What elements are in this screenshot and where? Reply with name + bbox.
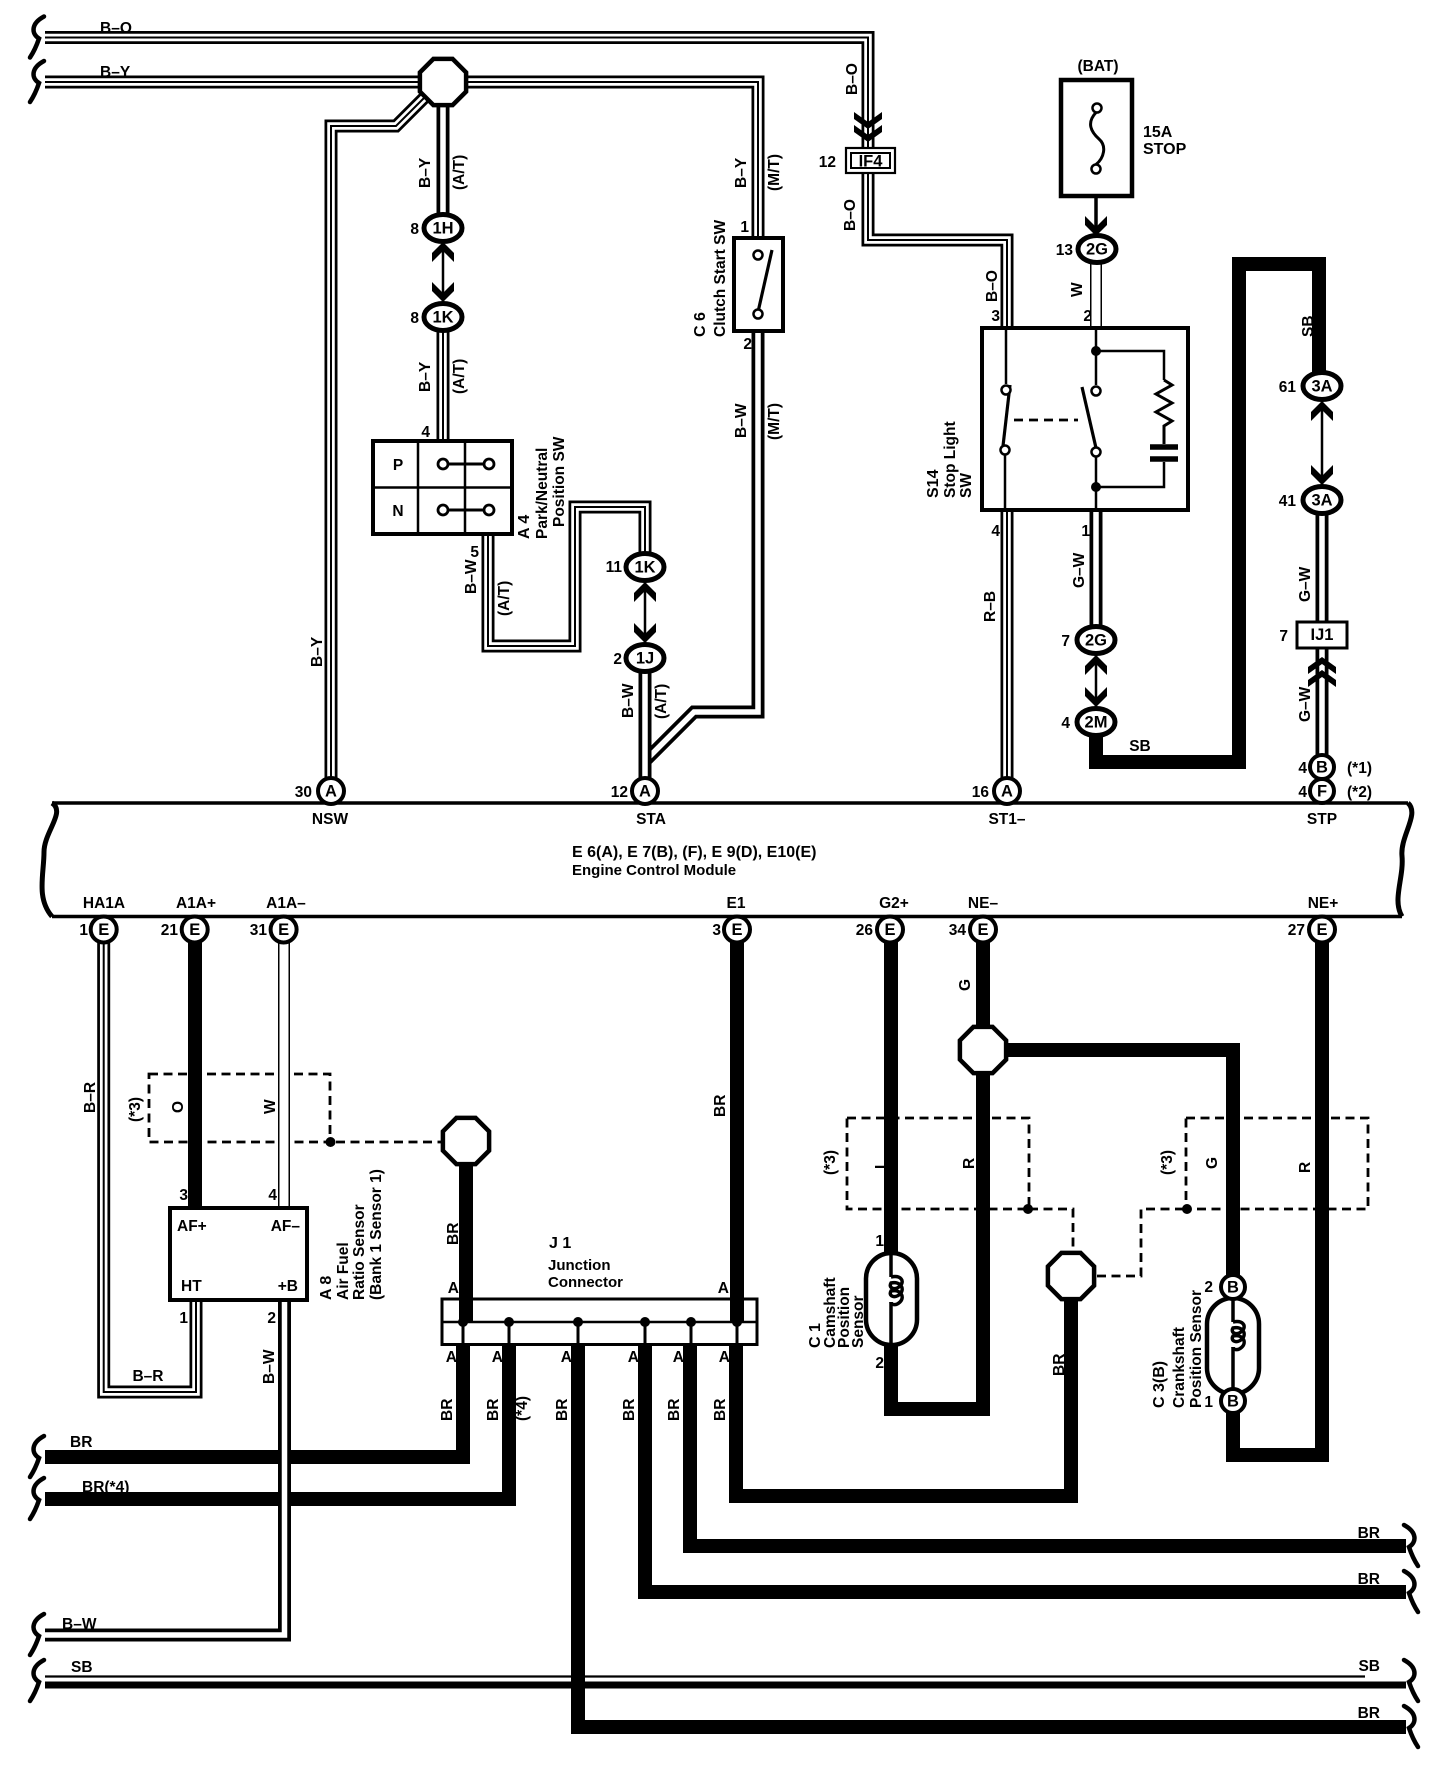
connector 8 1K bbox=[432, 282, 454, 302]
svg-text:A 4: A 4 bbox=[516, 515, 533, 539]
svg-text:G2+: G2+ bbox=[879, 895, 909, 912]
svg-text:Sensor: Sensor bbox=[850, 1295, 867, 1348]
svg-text:3: 3 bbox=[712, 922, 721, 939]
svg-text:G–W: G–W bbox=[1297, 566, 1314, 602]
svg-text:1K: 1K bbox=[634, 559, 655, 577]
wire BR from J1 to right bus 2 bbox=[690, 1322, 1406, 1546]
connector 2 1J bbox=[634, 623, 656, 643]
svg-text:E1: E1 bbox=[727, 895, 746, 912]
svg-text:A: A bbox=[639, 783, 651, 801]
svg-text:1J: 1J bbox=[636, 650, 654, 668]
svg-text:(A/T): (A/T) bbox=[451, 359, 468, 394]
svg-text:(A/T): (A/T) bbox=[653, 684, 670, 719]
junction block IF4 bbox=[846, 148, 895, 173]
ECM pin 30 A NSW bbox=[318, 778, 344, 804]
wire G/R from NE- pin 34 down to camshaft branch bbox=[976, 940, 990, 1416]
svg-text:E: E bbox=[98, 921, 109, 939]
svg-text:BR(*4): BR(*4) bbox=[82, 1479, 129, 1496]
svg-text:B–O: B–O bbox=[984, 270, 1001, 302]
svg-text:Park/Neutral: Park/Neutral bbox=[534, 448, 551, 539]
svg-text:2: 2 bbox=[267, 1310, 276, 1327]
junction octagon shield 1 bbox=[443, 1118, 489, 1164]
wire between connectors 2G and 2M bbox=[1095, 650, 1098, 712]
park/neutral position switch A4 bbox=[373, 441, 512, 534]
connector 41 3A bbox=[1311, 465, 1333, 485]
shield box (*3) around O and W wires bbox=[149, 1074, 330, 1142]
connector pin 1 B crankshaft bbox=[1221, 1389, 1245, 1413]
wire B-W (M/T) from C6 pin 2 to STA junction bbox=[645, 325, 758, 761]
svg-text:(A/T): (A/T) bbox=[496, 581, 513, 616]
svg-text:B–Y: B–Y bbox=[100, 64, 131, 81]
arrow into IF4 bbox=[854, 112, 882, 129]
svg-text:1: 1 bbox=[179, 1310, 188, 1327]
svg-text:N: N bbox=[392, 503, 403, 520]
wire between connectors 3A and 3A bbox=[1321, 398, 1324, 490]
svg-text:STA: STA bbox=[636, 811, 666, 828]
ECM pin 27 E NE+ bbox=[1309, 917, 1335, 943]
svg-text:11: 11 bbox=[606, 559, 623, 576]
shield drain wire camshaft box to octagon junction bbox=[1029, 1209, 1073, 1248]
svg-text:NE+: NE+ bbox=[1308, 895, 1339, 912]
svg-text:4: 4 bbox=[1061, 715, 1070, 732]
svg-text:BR: BR bbox=[712, 1399, 729, 1421]
svg-text:Junction: Junction bbox=[548, 1257, 611, 1274]
ECM pin 26 E G2+ bbox=[877, 917, 903, 943]
break symbol SB right bbox=[1404, 1660, 1418, 1701]
svg-text:NSW: NSW bbox=[312, 811, 349, 828]
svg-text:B–R: B–R bbox=[82, 1082, 99, 1113]
svg-text:HA1A: HA1A bbox=[83, 895, 125, 912]
wire G-W from IJ1 to STP pins bbox=[1316, 642, 1329, 790]
svg-text:3A: 3A bbox=[1311, 492, 1332, 510]
svg-text:BR: BR bbox=[439, 1399, 456, 1421]
capacitor in S14 bbox=[1150, 444, 1178, 450]
junction octagon shield 2 bbox=[1048, 1253, 1094, 1299]
ECM pin 1 E HA1A bbox=[91, 917, 117, 943]
wire B-Y (A/T) junction to 1H bbox=[437, 104, 450, 222]
shield drain wire octagon to crankshaft box bbox=[1097, 1209, 1186, 1276]
svg-text:5: 5 bbox=[470, 544, 479, 561]
svg-text:BR: BR bbox=[70, 1434, 92, 1451]
svg-text:A: A bbox=[628, 1349, 639, 1366]
stop light switch S14 bbox=[982, 328, 1188, 510]
svg-text:16: 16 bbox=[972, 784, 990, 801]
svg-text:BR: BR bbox=[554, 1399, 571, 1421]
svg-text:STOP: STOP bbox=[1143, 141, 1187, 158]
ECM pin 16 A ST1- bbox=[994, 778, 1020, 804]
connector 8 1H bbox=[432, 242, 454, 262]
svg-text:W: W bbox=[1069, 282, 1086, 297]
junction dot S14 bottom bbox=[1091, 482, 1101, 492]
wire from fuse STOP to connector 2G bbox=[1094, 173, 1098, 240]
wire BR from J1 to shield octagon bbox=[736, 1300, 1071, 1496]
svg-text:4: 4 bbox=[991, 523, 1000, 540]
break symbol BR left bbox=[30, 1436, 44, 1477]
svg-text:1: 1 bbox=[79, 922, 88, 939]
svg-text:3A: 3A bbox=[1311, 378, 1332, 396]
svg-text:B: B bbox=[1316, 759, 1328, 777]
svg-text:G–W: G–W bbox=[1297, 686, 1314, 722]
svg-text:Crankshaft: Crankshaft bbox=[1171, 1327, 1188, 1408]
svg-text:8: 8 bbox=[410, 310, 419, 327]
wire L from G2+ pin 26 to camshaft sensor pin 1 bbox=[884, 940, 898, 1260]
wire B-Y to NSW pin 30 bbox=[331, 81, 441, 785]
svg-text:G: G bbox=[1204, 1157, 1221, 1169]
svg-text:34: 34 bbox=[949, 922, 967, 939]
ECM pin 31 E A1A- bbox=[271, 917, 297, 943]
break symbol BR right 3 bbox=[1404, 1571, 1418, 1612]
break symbol BR right bottom bbox=[1404, 1706, 1418, 1747]
svg-text:E: E bbox=[189, 921, 200, 939]
svg-text:BR: BR bbox=[485, 1399, 502, 1421]
svg-text:Stop Light: Stop Light bbox=[942, 421, 959, 498]
connector 11 1K bbox=[634, 582, 656, 602]
wire BR(*4) from J1 to left bus bbox=[45, 1322, 509, 1499]
svg-text:BR: BR bbox=[1051, 1354, 1068, 1376]
svg-text:2M: 2M bbox=[1085, 714, 1108, 732]
junction octagon top bbox=[420, 59, 466, 105]
wire B-W from A8 +B pin 2 to left bus bbox=[45, 1300, 285, 1635]
svg-text:Engine Control Module: Engine Control Module bbox=[572, 862, 736, 879]
svg-text:E: E bbox=[1316, 921, 1327, 939]
ECM pin 34 E NE- bbox=[970, 917, 996, 943]
resistor in S14 bbox=[1156, 380, 1172, 444]
svg-text:O: O bbox=[170, 1101, 187, 1113]
junction connector J1 bbox=[442, 1299, 757, 1345]
wire R-B from S14 pin 4 to ST1- pin 16 bbox=[1001, 505, 1014, 785]
ECM pin 4 F STP bbox=[1310, 779, 1334, 803]
svg-text:E: E bbox=[278, 921, 289, 939]
svg-text:7: 7 bbox=[1279, 628, 1288, 645]
air fuel ratio sensor A8 bbox=[170, 1208, 307, 1300]
wire BR from E1 pin 3 to J1 bbox=[730, 940, 744, 1322]
svg-text:S14: S14 bbox=[925, 469, 942, 498]
svg-text:3: 3 bbox=[179, 1187, 188, 1204]
svg-text:E: E bbox=[731, 921, 742, 939]
junction block IJ1 bbox=[1297, 622, 1347, 648]
svg-text:ST1–: ST1– bbox=[988, 811, 1025, 828]
connector 61 3A bbox=[1311, 401, 1333, 421]
svg-text:8: 8 bbox=[410, 221, 419, 238]
wire from camshaft sensor pin 2 to NE- wire bbox=[891, 1340, 990, 1409]
svg-text:26: 26 bbox=[856, 922, 874, 939]
wire B-Y (A/T) 1K to park/neutral switch pin 4 bbox=[437, 325, 450, 448]
arrow into IJ1 bbox=[1308, 657, 1336, 674]
camshaft position sensor C1 bbox=[866, 1253, 917, 1345]
wire O from A1A+ pin 21 to A8 AF+ pin 3 bbox=[188, 940, 202, 1215]
svg-text:4: 4 bbox=[268, 1187, 277, 1204]
wire W from 2G to S14 pin 2 bbox=[1090, 258, 1102, 330]
svg-text:BR: BR bbox=[1358, 1525, 1380, 1542]
svg-text:(A/T): (A/T) bbox=[451, 155, 468, 190]
shield box (*3) around L and R wires bbox=[847, 1118, 1029, 1209]
svg-text:2: 2 bbox=[1083, 308, 1092, 325]
svg-text:BR: BR bbox=[1358, 1705, 1380, 1722]
break symbol SB left bbox=[30, 1660, 44, 1701]
svg-text:AF+: AF+ bbox=[177, 1218, 207, 1235]
svg-text:B–W: B–W bbox=[620, 683, 637, 718]
wire B-O bus from left to IF4 bbox=[45, 38, 868, 156]
svg-text:1: 1 bbox=[875, 1233, 884, 1250]
svg-text:3: 3 bbox=[991, 308, 1000, 325]
svg-text:A1A–: A1A– bbox=[266, 895, 306, 912]
svg-text:B–O: B–O bbox=[842, 199, 859, 231]
svg-text:(*3): (*3) bbox=[1159, 1150, 1176, 1175]
junction dot S14 top bbox=[1091, 346, 1101, 356]
svg-text:R–B: R–B bbox=[982, 591, 999, 622]
break symbol BR right 2 bbox=[1404, 1525, 1418, 1566]
svg-text:B–Y: B–Y bbox=[417, 361, 434, 392]
junction dot shield box 2 bbox=[1023, 1204, 1033, 1214]
svg-text:15A: 15A bbox=[1143, 124, 1173, 141]
svg-text:27: 27 bbox=[1288, 922, 1305, 939]
svg-text:SW: SW bbox=[958, 473, 975, 498]
svg-text:A1A+: A1A+ bbox=[176, 895, 216, 912]
wire B-R from HA1A pin 1 to A8 HT pin 1 bbox=[104, 940, 196, 1392]
fuse 15A STOP battery box bbox=[1061, 80, 1132, 196]
svg-text:L: L bbox=[873, 1160, 890, 1169]
svg-text:B–O: B–O bbox=[100, 20, 132, 37]
ECM box Engine Control Module bbox=[42, 803, 1412, 917]
svg-text:NE–: NE– bbox=[968, 895, 999, 912]
svg-text:E 6(A), E 7(B), (F), E 9(D), E: E 6(A), E 7(B), (F), E 9(D), E10(E) bbox=[572, 844, 816, 861]
svg-text:61: 61 bbox=[1279, 379, 1297, 396]
svg-text:B–W: B–W bbox=[733, 403, 750, 438]
svg-text:2: 2 bbox=[1204, 1279, 1213, 1296]
break symbol B-Y left bbox=[30, 61, 44, 102]
wire SB bus bottom bbox=[45, 1677, 1406, 1686]
svg-text:A 8: A 8 bbox=[318, 1276, 335, 1300]
wire R from NE+ pin 27 to crankshaft sensor pin 1 bbox=[1233, 940, 1322, 1455]
svg-text:SB: SB bbox=[71, 1659, 93, 1676]
svg-text:(Bank 1 Sensor 1): (Bank 1 Sensor 1) bbox=[368, 1169, 385, 1300]
ECM pin 12 A STA bbox=[632, 778, 658, 804]
break symbol B-W left bbox=[30, 1614, 44, 1655]
svg-text:12: 12 bbox=[819, 154, 836, 171]
wire SB from 2M up to 3A bbox=[1096, 264, 1319, 762]
svg-text:BR: BR bbox=[445, 1223, 462, 1245]
svg-text:A: A bbox=[561, 1349, 572, 1366]
svg-text:STP: STP bbox=[1307, 811, 1337, 828]
svg-text:B–O: B–O bbox=[844, 63, 861, 95]
svg-text:(*1): (*1) bbox=[1347, 760, 1372, 777]
svg-text:R: R bbox=[1297, 1162, 1314, 1173]
svg-text:1K: 1K bbox=[432, 309, 453, 327]
svg-text:2G: 2G bbox=[1085, 632, 1107, 650]
wire between connectors 1K and 1J bbox=[644, 578, 647, 652]
arrow from fuse to 2G bbox=[1085, 216, 1107, 236]
svg-text:13: 13 bbox=[1056, 242, 1074, 259]
connector 13 2G bbox=[1078, 236, 1116, 263]
svg-text:4: 4 bbox=[1298, 760, 1307, 777]
svg-text:Air Fuel: Air Fuel bbox=[335, 1242, 352, 1300]
svg-text:AF–: AF– bbox=[271, 1218, 301, 1235]
svg-text:SB: SB bbox=[1358, 1658, 1380, 1675]
svg-text:(*2): (*2) bbox=[1347, 784, 1372, 801]
wire BR from J1 to left bus bbox=[45, 1322, 463, 1457]
svg-text:2: 2 bbox=[743, 336, 752, 353]
svg-text:A: A bbox=[448, 1280, 459, 1297]
svg-text:2: 2 bbox=[875, 1355, 884, 1372]
svg-text:E: E bbox=[884, 921, 895, 939]
svg-text:A: A bbox=[325, 783, 337, 801]
svg-text:HT: HT bbox=[181, 1278, 202, 1295]
shield drain wire to junction bbox=[336, 1141, 441, 1144]
svg-text:SB: SB bbox=[1300, 315, 1317, 337]
shield box (*3) around G and R wires bbox=[1186, 1118, 1368, 1209]
svg-text:BR: BR bbox=[621, 1399, 638, 1421]
wire G-W from 3A to IJ1 bbox=[1316, 510, 1329, 630]
ECM pin 4 B STP bbox=[1310, 755, 1334, 779]
wire B-Y bus from left through junction to C6 bbox=[45, 82, 758, 245]
wire between connectors 1H and 1K bbox=[442, 240, 445, 310]
svg-text:B–W: B–W bbox=[463, 559, 480, 594]
svg-text:(M/T): (M/T) bbox=[766, 403, 783, 440]
svg-text:E: E bbox=[977, 921, 988, 939]
svg-text:A: A bbox=[1001, 783, 1013, 801]
svg-text:4: 4 bbox=[421, 424, 430, 441]
svg-text:B–Y: B–Y bbox=[733, 157, 750, 188]
connector 4 2M bbox=[1085, 687, 1107, 707]
svg-text:B–Y: B–Y bbox=[309, 636, 326, 667]
svg-text:B–R: B–R bbox=[132, 1368, 163, 1385]
svg-text:31: 31 bbox=[250, 922, 268, 939]
wire B-W (A/T) 1J to STA pin 12 bbox=[639, 668, 652, 785]
break symbol BR(*4) left bbox=[30, 1478, 44, 1519]
ECM pin 21 E A1A+ bbox=[182, 917, 208, 943]
svg-text:G–W: G–W bbox=[1071, 552, 1088, 588]
svg-text:1: 1 bbox=[740, 219, 749, 236]
svg-text:21: 21 bbox=[161, 922, 179, 939]
svg-text:C 6: C 6 bbox=[692, 312, 709, 337]
svg-text:A: A bbox=[446, 1349, 457, 1366]
svg-text:2G: 2G bbox=[1086, 241, 1108, 259]
wire B-O from IF4 to S14 pin 3 bbox=[868, 166, 1007, 335]
svg-text:Connector: Connector bbox=[548, 1274, 623, 1291]
junction octagon NE- bbox=[960, 1027, 1006, 1073]
junction dot shield box 3 bbox=[1182, 1204, 1192, 1214]
wire BR from J1 to bottom right bus bbox=[578, 1322, 1406, 1727]
svg-text:SB: SB bbox=[1129, 738, 1151, 755]
svg-text:Ratio Sensor: Ratio Sensor bbox=[351, 1204, 368, 1300]
connector 7 2G bbox=[1085, 655, 1107, 675]
svg-text:A: A bbox=[718, 1280, 729, 1297]
svg-text:(BAT): (BAT) bbox=[1077, 58, 1118, 75]
svg-text:(M/T): (M/T) bbox=[766, 154, 783, 191]
ECM pin 3 E E1 bbox=[724, 917, 750, 943]
svg-text:G: G bbox=[957, 979, 974, 991]
svg-text:7: 7 bbox=[1061, 633, 1070, 650]
svg-text:B–Y: B–Y bbox=[417, 157, 434, 188]
svg-text:4: 4 bbox=[1298, 784, 1307, 801]
wire G-W from S14 pin 1 to 2G bbox=[1090, 505, 1103, 635]
svg-text:Position Sensor: Position Sensor bbox=[1188, 1290, 1205, 1408]
junction dot shield box 1 bbox=[326, 1137, 336, 1147]
connector pin 2 B crankshaft bbox=[1221, 1275, 1245, 1299]
svg-text:A: A bbox=[719, 1349, 730, 1366]
svg-text:A: A bbox=[673, 1349, 684, 1366]
svg-text:A: A bbox=[492, 1349, 503, 1366]
break symbol B-O left bbox=[30, 17, 44, 58]
svg-text:BR: BR bbox=[712, 1095, 729, 1117]
svg-text:Clutch Start SW: Clutch Start SW bbox=[712, 220, 729, 337]
svg-text:IJ1: IJ1 bbox=[1311, 626, 1334, 644]
svg-text:J 1: J 1 bbox=[549, 1235, 571, 1252]
svg-text:30: 30 bbox=[295, 784, 312, 801]
svg-text:12: 12 bbox=[611, 784, 628, 801]
svg-text:B–W: B–W bbox=[261, 1349, 278, 1384]
svg-text:IF4: IF4 bbox=[859, 153, 884, 171]
svg-text:+B: +B bbox=[278, 1278, 298, 1295]
svg-text:B: B bbox=[1227, 1393, 1239, 1411]
svg-text:41: 41 bbox=[1279, 493, 1297, 510]
svg-text:F: F bbox=[1317, 783, 1327, 801]
svg-text:Position SW: Position SW bbox=[551, 436, 568, 527]
svg-text:1: 1 bbox=[1081, 523, 1090, 540]
wire W from A1A- pin 31 to A8 AF- pin 4 bbox=[278, 940, 290, 1215]
crankshaft position sensor C3(B) bbox=[1207, 1298, 1259, 1394]
svg-text:(*3): (*3) bbox=[822, 1150, 839, 1175]
svg-text:2: 2 bbox=[613, 651, 622, 668]
svg-text:C 3(B): C 3(B) bbox=[1151, 1361, 1168, 1408]
svg-text:B–W: B–W bbox=[62, 1616, 97, 1633]
svg-text:(*3): (*3) bbox=[127, 1097, 144, 1122]
svg-text:W: W bbox=[262, 1099, 279, 1114]
svg-text:P: P bbox=[393, 457, 403, 474]
svg-text:(*4): (*4) bbox=[514, 1396, 531, 1421]
wire B-W (A/T) from pin 5 to 1K bbox=[488, 507, 645, 646]
svg-text:BR: BR bbox=[666, 1399, 683, 1421]
wire BR from J1 to right bus 3 bbox=[645, 1322, 1406, 1592]
svg-text:1: 1 bbox=[1204, 1394, 1213, 1411]
wire G from NE- octagon to crankshaft sensor pin 2 bbox=[983, 1050, 1233, 1278]
clutch start switch C6 bbox=[734, 238, 783, 331]
svg-text:BR: BR bbox=[1358, 1571, 1380, 1588]
svg-text:B: B bbox=[1227, 1279, 1239, 1297]
svg-text:R: R bbox=[961, 1158, 978, 1169]
svg-text:1H: 1H bbox=[432, 220, 453, 238]
wire BR from shield octagon to J1 bbox=[459, 1166, 473, 1322]
